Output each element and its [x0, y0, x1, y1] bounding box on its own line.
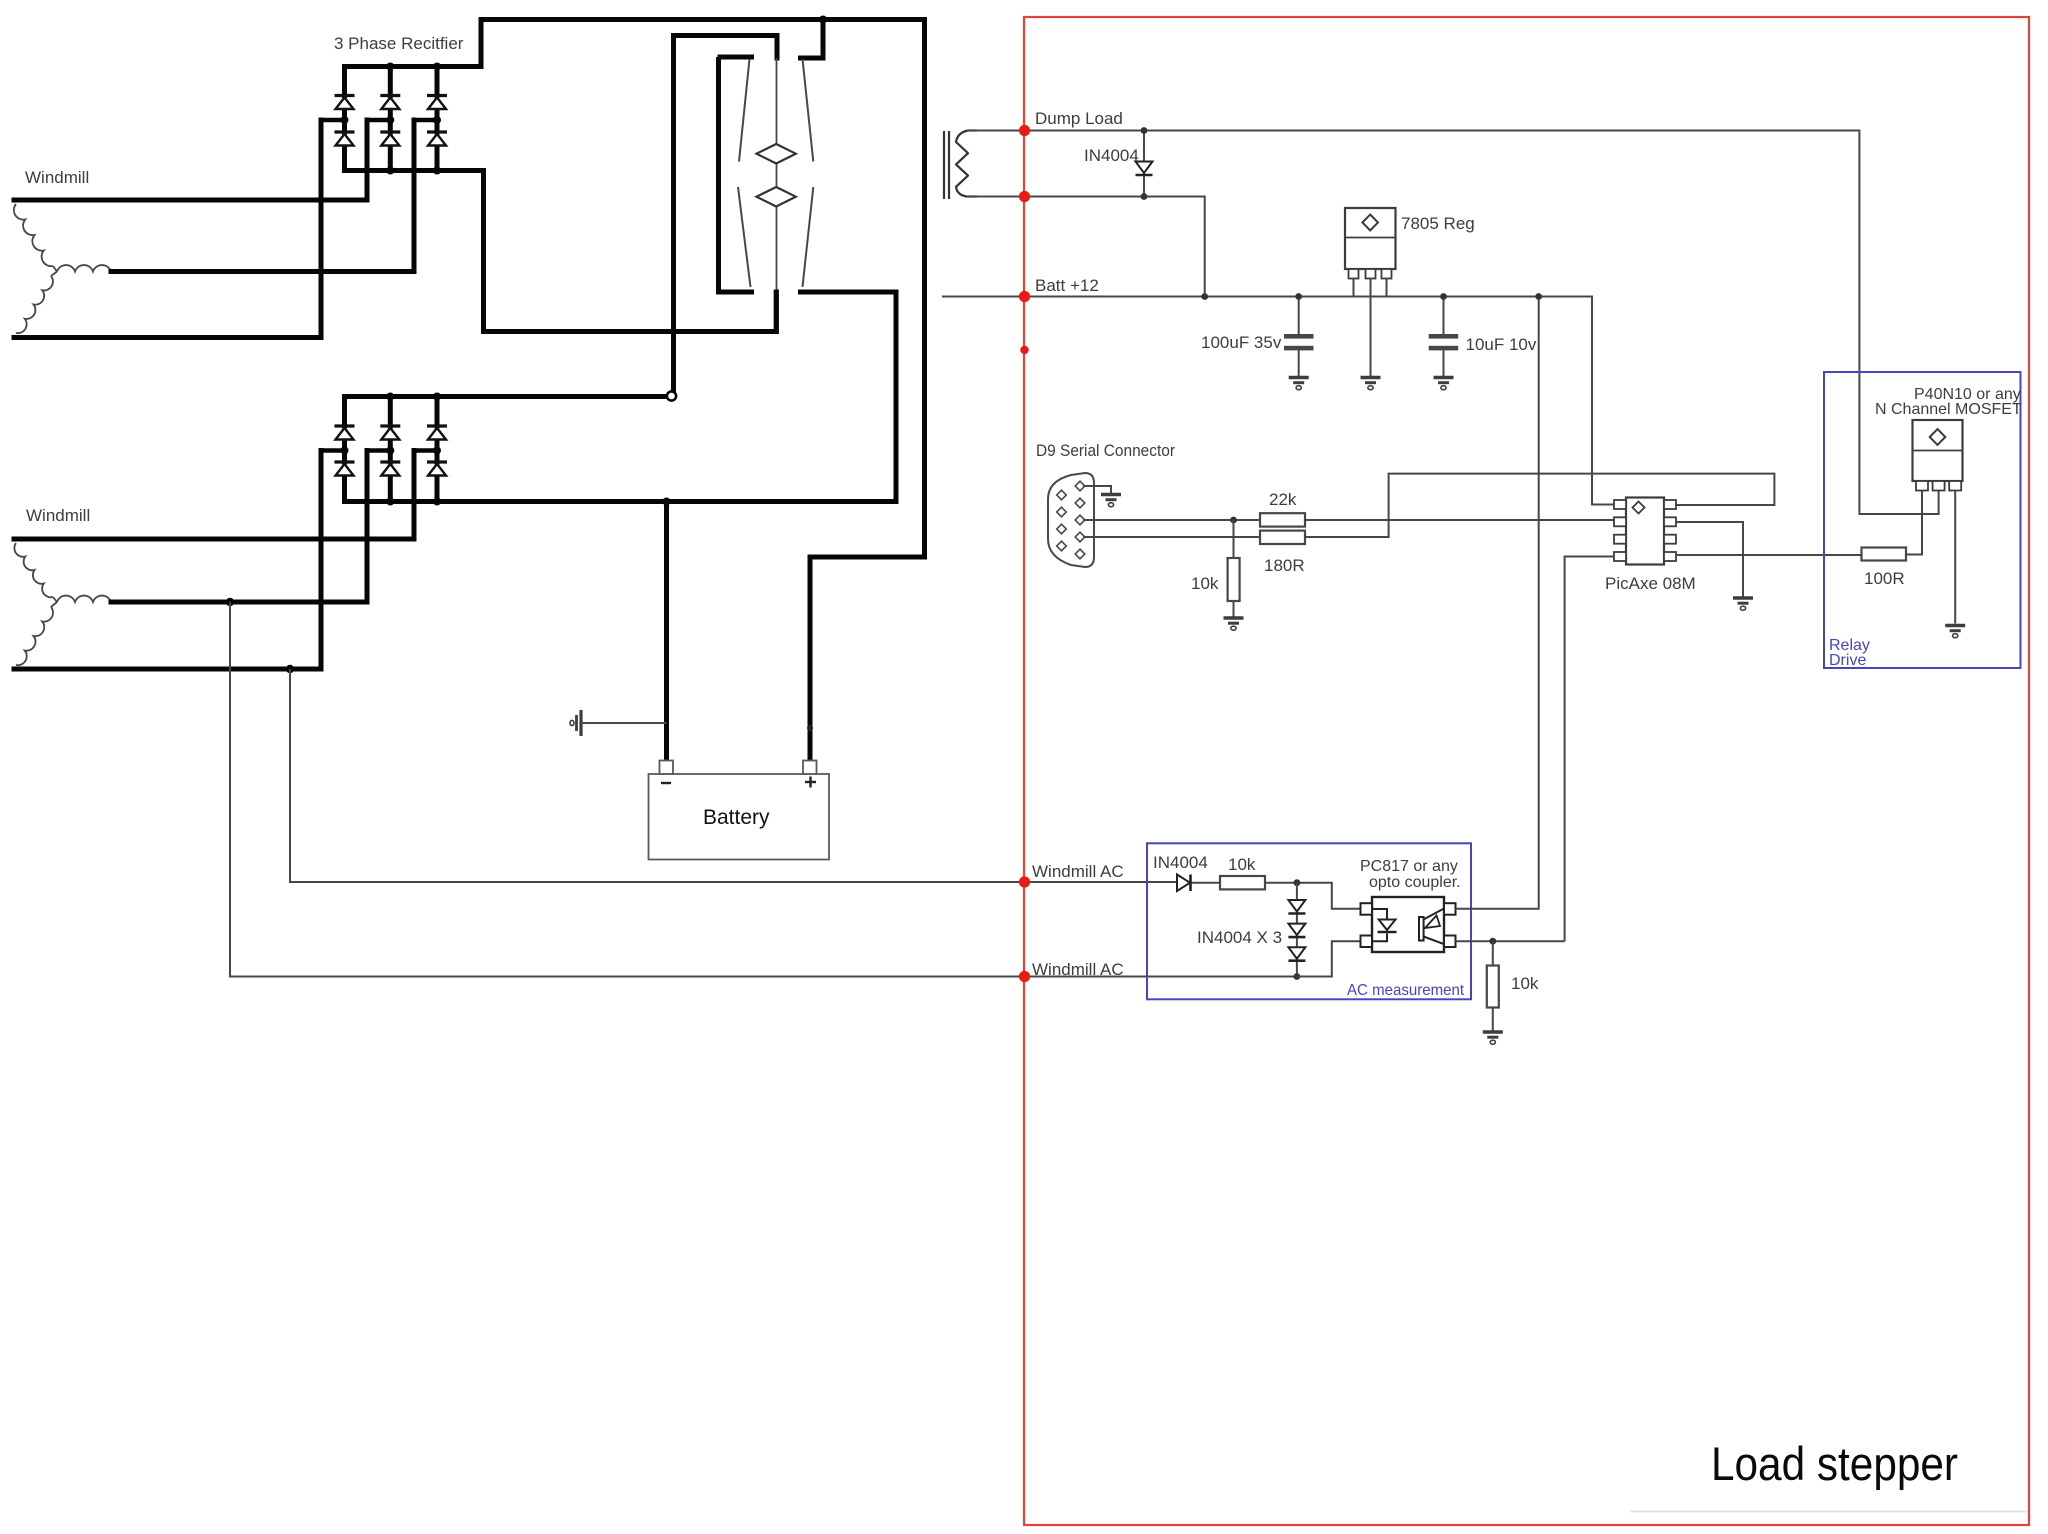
relay contactor: upper diamond on plunger: [757, 144, 796, 164]
svg-text:3 Phase Recitfier: 3 Phase Recitfier: [334, 34, 464, 53]
junction: opto emitter output node: [1489, 938, 1496, 945]
resistor R3 10k: [1228, 520, 1240, 617]
voltage regulator U1 7805 (TO-220): [1345, 208, 1396, 279]
junction: rectifier2 bottom bus col3: [433, 498, 441, 506]
junction: rectifier1 mid node column 1: [341, 116, 349, 124]
wire: windmill AC tap from phase B down to lower AC line: [230, 602, 1332, 977]
junction: small dot on battery positive wire: [807, 725, 813, 731]
wire: D9 TX pin to 22k: [1083, 519, 1260, 521]
wire: rectifier1 column 1: [342, 67, 347, 96]
junction: rail at IN4004 return: [1201, 293, 1208, 300]
diode rectifier1 bottom column 1: [335, 132, 355, 146]
wire: rectifier2 column 1: [342, 397, 347, 427]
wire: rectifier2 phase elbow column 1: [321, 448, 345, 453]
battery positive terminal: [803, 761, 817, 775]
relay contactor: lower diamond on plunger: [757, 187, 796, 207]
svg-text:PC817 or any: PC817 or any: [1360, 858, 1458, 875]
node: red terminal windmill AC upper: [1019, 876, 1030, 887]
node: small red terminal: [1020, 346, 1028, 354]
windmill generator G2 (3-phase star winding): [14, 543, 111, 665]
svg-text:100R: 100R: [1864, 569, 1905, 588]
wire: lower AC line to opto cathode: [1297, 941, 1361, 976]
svg-text:10k: 10k: [1228, 855, 1256, 874]
wire: dump load net to MOSFET drain: [967, 131, 1939, 515]
junction: rectifier1 mid node column 3: [433, 116, 441, 124]
svg-text:Drive: Drive: [1829, 652, 1866, 669]
wire: 100R to MOSFET gate: [1906, 491, 1922, 555]
wire: opto collector to Batt+12: [1456, 297, 1539, 909]
ground: R6: [1483, 1032, 1503, 1044]
junction: rectifier2 top bus col2: [386, 393, 394, 401]
relay contactor: left terminal wire: [671, 36, 777, 392]
junction: rectifier1 mid node column 2: [386, 116, 394, 124]
junction: clamp chain bottom: [1294, 973, 1301, 980]
svg-text:Windmill: Windmill: [26, 506, 90, 525]
inductor L1 dump load (with core): [944, 131, 977, 200]
resistor R4 100R: [1862, 548, 1907, 561]
wire: rectifier1 phase elbow column 1: [321, 118, 345, 123]
IC U2 PicAxe 08M: [1614, 498, 1676, 565]
junction: top rail at relay right contact: [819, 16, 827, 24]
resistor R6 10k: [1487, 941, 1499, 1030]
diode rectifier1 bottom column 2: [380, 132, 400, 146]
wire: MOSFET source to ground: [1954, 491, 1956, 624]
wire: windmill2 phase C (bottom) to rectifier2 column1 elbow: [14, 451, 321, 670]
junction: diode top: [1141, 127, 1148, 134]
relay contactor: lower blade left: [738, 187, 751, 287]
diode rectifier2 bottom column 3: [427, 462, 447, 476]
diode chain D3 D4 D5 (IN4004 x 3): [1288, 883, 1305, 977]
node: red terminal Batt +12: [1019, 291, 1030, 302]
relay drive boundary box (blue): [1824, 372, 2021, 668]
ground: 7805 middle pin: [1361, 378, 1381, 390]
windmill generator G1 (3-phase star winding): [14, 204, 111, 333]
wire: rectifier1 bottom bus to relay plunger: [345, 171, 777, 332]
node: red terminal inductor return: [1019, 191, 1030, 202]
wire: diode to 10k: [1192, 882, 1221, 884]
junction: rectifier1 top bus col3: [433, 63, 441, 71]
junction: rectifier2 mid node column 3: [433, 447, 441, 455]
ground: PicAxe pin7: [1733, 598, 1753, 610]
junction: rail at C1: [1295, 293, 1302, 300]
diode rectifier1 top column 1: [335, 96, 355, 110]
wire: Batt +12 rail: [942, 297, 1614, 505]
junction: rectifier2 bottom bus col2: [386, 498, 394, 506]
resistor R2 180R: [1260, 531, 1305, 544]
node: red terminal windmill AC lower: [1019, 971, 1030, 982]
diode rectifier1 top column 2: [380, 96, 400, 110]
wire: windmill2 phase B (middle) to rectifier2 column2 elbow: [111, 451, 367, 603]
wire: rectifier2 top bus: [345, 394, 666, 399]
svg-text:Windmill: Windmill: [25, 168, 89, 187]
wire: D9 RX pin to 180R: [1083, 536, 1260, 538]
svg-text:IN4004: IN4004: [1153, 853, 1208, 872]
diode rectifier2 bottom column 1: [335, 462, 355, 476]
svg-text:180R: 180R: [1264, 556, 1305, 575]
junction: windmill2 phase B tap: [226, 598, 234, 606]
svg-text:10uF 10v: 10uF 10v: [1466, 335, 1537, 354]
wire: windmill2 phase A (top) to rectifier2 column3 elbow: [14, 451, 414, 540]
relay contactor: upper blade right: [803, 59, 814, 162]
svg-text:AC measurement: AC measurement: [1347, 982, 1465, 999]
junction: rail at opto collector riser: [1535, 293, 1542, 300]
wire: rectifier2 bottom bus: [345, 499, 897, 504]
svg-text:22k: 22k: [1269, 490, 1297, 509]
svg-text:opto coupler.: opto coupler.: [1369, 874, 1461, 891]
wire: windmill1 phase B (middle) to rectifier column 3 elbow: [111, 120, 414, 272]
wire: 7805 ground pin down: [1370, 279, 1372, 377]
diode rectifier2 top column 1: [335, 426, 355, 440]
AC measurement boundary box (blue): [1147, 843, 1471, 999]
ground: MOSFET source: [1945, 626, 1965, 638]
junction: rectifier2 mid node column 1: [341, 447, 349, 455]
wire: windmill1 phase C (bottom) to rectifier column 1 elbow: [14, 120, 321, 338]
svg-text:IN4004: IN4004: [1084, 146, 1139, 165]
svg-text:PicAxe 08M: PicAxe 08M: [1605, 574, 1696, 593]
wire: rectifier2 column 3: [435, 397, 440, 427]
svg-text:Dump Load: Dump Load: [1035, 109, 1123, 128]
diode rectifier2 top column 3: [427, 426, 447, 440]
diode rectifier1 top column 3: [427, 96, 447, 110]
relay contactor: plunger bottom terminal: [774, 292, 779, 332]
junction: rectifier1 bottom bus col2: [386, 167, 394, 175]
wire: rectifier2 phase elbow column 2: [367, 448, 390, 453]
connector J1 D9 serial: [1048, 473, 1094, 567]
ground: D9 shield: [1101, 495, 1121, 507]
wire: 10k to opto anode: [1265, 883, 1361, 909]
relay contactor: left fixed contact bracket: [718, 57, 752, 292]
wire: rectifier1 column 2: [388, 67, 393, 96]
wire: 7805 input pin to rail: [1353, 279, 1355, 297]
junction: rectifier2 top bus col3: [433, 393, 441, 401]
svg-text:Batt +12: Batt +12: [1035, 276, 1099, 295]
capacitor C2 10uF 10v: [1429, 297, 1459, 377]
battery body: [649, 774, 830, 860]
wire: windmill1 phase A (top) to rectifier column 2 elbow: [14, 120, 367, 200]
faint page edge line: [1630, 1511, 2028, 1513]
diode rectifier1 bottom column 3: [427, 132, 447, 146]
capacitor C1 100uF 35v: [1284, 297, 1314, 377]
ground: R3: [1224, 618, 1244, 630]
wire: D9 pin1 to ground: [1083, 486, 1111, 493]
svg-text:Windmill AC: Windmill AC: [1032, 960, 1124, 979]
junction: diode bottom: [1141, 193, 1148, 200]
wire: rectifier1 top bus: [345, 64, 482, 69]
svg-text:N Channel MOSFET: N Channel MOSFET: [1875, 401, 2022, 418]
wire: battery negative to ground: [581, 722, 667, 724]
diode D1 IN4004 across dump load: [1143, 131, 1145, 197]
svg-text:D9 Serial Connector: D9 Serial Connector: [1036, 441, 1175, 460]
node: red terminal dump load: [1019, 125, 1030, 136]
battery minus sign: [661, 782, 671, 784]
wire: riser from top bus to top rail: [479, 20, 484, 67]
svg-text:IN4004 X 3: IN4004 X 3: [1197, 928, 1282, 947]
junction: serial divider node: [1230, 517, 1237, 524]
wire: windmill AC tap from phase C down to upper AC line: [290, 669, 1177, 882]
wire: rectifier1 phase elbow column 3: [414, 118, 437, 123]
wire: rectifier1 column 3: [435, 67, 440, 96]
load stepper boundary box (red): [1024, 17, 2029, 1525]
junction: windmill2 phase C tap: [286, 665, 294, 673]
wire: rectifier1 phase elbow column 2: [367, 118, 390, 123]
wire: battery negative feed: [664, 502, 669, 762]
junction: rail at C2: [1440, 293, 1447, 300]
battery plus sign: [805, 777, 816, 788]
junction: rectifier2 bottom bus to battery negative: [663, 498, 671, 506]
battery negative terminal: [660, 761, 674, 775]
diode D2 IN4004 series: [1177, 875, 1191, 892]
relay contactor: lower blade right: [803, 187, 814, 287]
wire: 7805 output pin to rail: [1386, 279, 1388, 297]
transistor Q1 P40N10 MOSFET (TO-220): [1913, 420, 1963, 491]
relay contactor: right fixed contact from top rail: [801, 20, 824, 59]
wire: rectifier2 phase elbow column 3: [414, 448, 437, 453]
junction: rectifier2 mid node column 2: [386, 447, 394, 455]
svg-text:7805 Reg: 7805 Reg: [1401, 214, 1475, 233]
svg-text:Windmill AC: Windmill AC: [1032, 862, 1124, 881]
diode rectifier2 bottom column 2: [380, 462, 400, 476]
wire: 22k to PicAxe pin2: [1305, 519, 1614, 521]
wire: PicAxe pin4 to opto emitter node: [1565, 557, 1614, 942]
resistor R1 22k: [1260, 513, 1305, 526]
junction: clamp chain top: [1294, 879, 1301, 886]
wire: top rail from rectifier riser to relay and down to battery +: [481, 20, 925, 762]
relay contactor: plunger rod: [776, 58, 778, 292]
svg-text:100uF 35v: 100uF 35v: [1201, 333, 1282, 352]
opto coupler U3 PC817: [1361, 897, 1456, 952]
wire: PicAxe pin7 to ground: [1676, 522, 1743, 597]
wire: opto emitter to output node: [1456, 940, 1565, 942]
ground symbol at battery negative: [570, 710, 581, 736]
relay contactor: middle terminal stub: [775, 36, 780, 59]
junction: rectifier1 bottom bus col3: [433, 167, 441, 175]
svg-text:10k: 10k: [1511, 974, 1539, 993]
svg-text:10k: 10k: [1191, 574, 1219, 593]
relay contactor: bottom right contact to rectifier2 bus: [801, 292, 897, 502]
resistor R5 10k: [1220, 876, 1265, 889]
node: open terminal circle at rectifier2 positive bus: [667, 391, 676, 400]
junction: rectifier1 top bus col2: [386, 63, 394, 71]
wire: PicAxe pin5 to 100R: [1676, 554, 1862, 556]
wire: 180R to PicAxe pin8 (over the top): [1305, 474, 1774, 537]
wire: rectifier2 column 2: [388, 397, 393, 427]
diode rectifier2 top column 2: [380, 426, 400, 440]
svg-text:Load stepper: Load stepper: [1711, 1437, 1958, 1490]
wire: inductor bottom to diode and Batt+12: [967, 197, 1205, 297]
ground: C1: [1289, 378, 1309, 390]
svg-text:Battery: Battery: [703, 806, 770, 829]
relay contactor: upper blade left: [739, 59, 750, 162]
ground: C2: [1434, 378, 1454, 390]
